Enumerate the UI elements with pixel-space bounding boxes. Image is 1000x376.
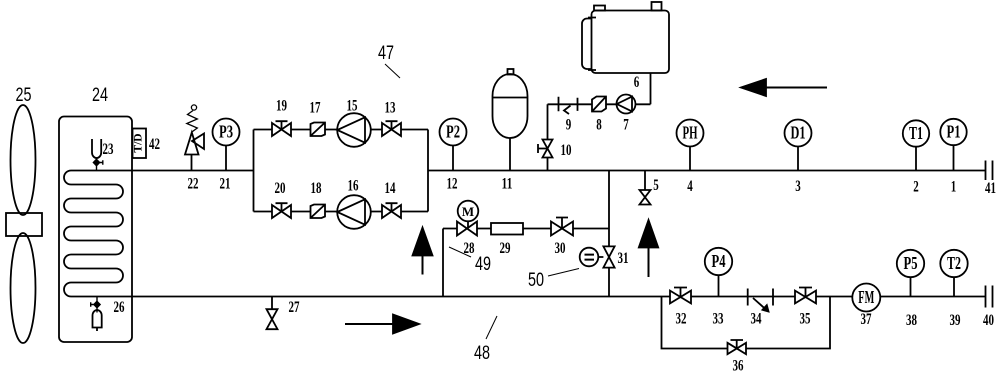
- svg-text:4: 4: [687, 178, 693, 195]
- svg-text:9: 9: [566, 117, 572, 134]
- heater 42 box: [133, 129, 147, 159]
- node loop right vertical: [427, 130, 429, 212]
- check valve 8: [592, 97, 606, 112]
- filter 29: [491, 223, 523, 235]
- valve 5: [640, 171, 651, 205]
- svg-text:1: 1: [951, 179, 957, 196]
- flow arrow left (top right): [766, 87, 827, 89]
- fan 25 blade bottom: [11, 233, 36, 343]
- flow switch 34: [748, 289, 773, 311]
- svg-text:38: 38: [906, 312, 917, 329]
- sensor 23 junction: [93, 158, 102, 171]
- wire bottom main: [132, 296, 986, 298]
- svg-text:P2: P2: [446, 122, 460, 142]
- svg-text:10: 10: [561, 142, 572, 159]
- svg-text:D1: D1: [791, 123, 806, 143]
- node drop line x609: [608, 171, 610, 297]
- svg-text:P5: P5: [904, 253, 918, 273]
- sensor 26 junction: [91, 297, 100, 313]
- svg-text:5: 5: [653, 177, 659, 194]
- svg-text:31: 31: [618, 250, 629, 267]
- motor valve 28: [457, 221, 477, 235]
- svg-text:3: 3: [795, 178, 801, 195]
- valve 27: [267, 297, 278, 330]
- svg-text:49: 49: [475, 254, 491, 275]
- wire top branch: [254, 129, 429, 131]
- valve 35: [795, 288, 816, 304]
- valve 13: [382, 121, 401, 136]
- svg-text:36: 36: [733, 358, 744, 375]
- svg-text:7: 7: [623, 117, 629, 134]
- gauge P2 (12): [452, 146, 454, 171]
- svg-text:6: 6: [634, 74, 640, 91]
- svg-text:50: 50: [528, 270, 544, 291]
- svg-text:30: 30: [555, 240, 566, 257]
- safety valve 22: [185, 133, 204, 171]
- svg-text:33: 33: [713, 311, 724, 328]
- label 47 with leader: [385, 64, 400, 78]
- svg-text:T1: T1: [909, 123, 923, 143]
- flow switch 9: [559, 97, 578, 114]
- pump 16: [337, 195, 371, 229]
- wire top main right: [428, 170, 986, 172]
- svg-text:25: 25: [16, 85, 32, 106]
- svg-text:8: 8: [596, 117, 602, 134]
- svg-text:26: 26: [114, 299, 125, 316]
- label 50 with leader: [548, 269, 579, 277]
- svg-text:18: 18: [311, 180, 322, 197]
- valve 19: [272, 121, 291, 136]
- valve 32: [670, 288, 691, 304]
- svg-text:40: 40: [983, 312, 994, 329]
- svg-text:PH: PH: [683, 123, 698, 143]
- svg-text:P4: P4: [712, 251, 726, 271]
- svg-text:41: 41: [985, 180, 996, 197]
- line end 40: [986, 286, 993, 308]
- svg-text:34: 34: [751, 311, 762, 328]
- svg-text:11: 11: [502, 176, 513, 193]
- wire mid branch: [443, 228, 609, 230]
- svg-text:17: 17: [310, 100, 321, 117]
- valve 36: [728, 340, 747, 354]
- svg-text:19: 19: [276, 98, 287, 115]
- gauge PH (4): [689, 147, 691, 171]
- svg-text:47: 47: [378, 43, 394, 64]
- svg-text:29: 29: [500, 240, 511, 257]
- valve 10: [538, 140, 553, 158]
- gauge P4 (33): [718, 275, 720, 296]
- svg-text:P1: P1: [947, 122, 961, 142]
- svg-text:M: M: [462, 204, 474, 219]
- heat exchanger 24 body: [59, 117, 132, 343]
- svg-text:37: 37: [861, 311, 872, 328]
- line end 41: [986, 161, 993, 181]
- gauge T2 (39): [953, 277, 955, 296]
- svg-text:24: 24: [92, 85, 108, 106]
- svg-text:14: 14: [385, 180, 396, 197]
- check valve 17: [311, 123, 326, 137]
- valve 30: [551, 218, 573, 236]
- pump 7: [617, 95, 636, 114]
- svg-text:FM: FM: [858, 287, 874, 307]
- svg-text:32: 32: [676, 311, 687, 328]
- wire top main left: [132, 170, 254, 172]
- flow meter FM (37): [852, 284, 880, 312]
- svg-text:20: 20: [275, 180, 286, 197]
- valve 31: [598, 246, 614, 267]
- svg-text:12: 12: [447, 176, 458, 193]
- wire riser to compressor: [548, 73, 651, 171]
- svg-text:T2: T2: [947, 253, 961, 273]
- node loop left vertical: [253, 130, 255, 212]
- coil serpentine: [64, 171, 132, 297]
- svg-text:35: 35: [800, 311, 811, 328]
- gauge P1 (1): [953, 145, 955, 170]
- flow arrow up left: [422, 256, 424, 275]
- flow arrow right (bottom): [345, 323, 394, 325]
- svg-text:48: 48: [474, 343, 490, 364]
- svg-text:42: 42: [149, 136, 160, 153]
- fan 25 blade top: [11, 105, 36, 215]
- svg-text:13: 13: [385, 100, 396, 117]
- gauge T1 (2): [915, 147, 917, 171]
- bypass loop: [662, 297, 831, 349]
- fan 25 hub: [6, 213, 42, 236]
- svg-text:2: 2: [913, 179, 919, 196]
- svg-text:23: 23: [103, 141, 114, 158]
- gauge P5 (38): [910, 277, 912, 296]
- expansion tank 11: [509, 138, 511, 171]
- svg-text:39: 39: [950, 312, 961, 329]
- label 48 with leader: [486, 316, 497, 339]
- compressor 6 body: [592, 11, 670, 74]
- gauge P3 (21): [225, 146, 227, 171]
- sensor 26 bulb: [93, 310, 102, 331]
- label 49 with leader: [449, 247, 471, 257]
- valve 20: [272, 203, 291, 218]
- valve 14: [382, 203, 401, 218]
- svg-text:15: 15: [347, 98, 358, 115]
- svg-text:P3: P3: [219, 122, 233, 142]
- flow arrow up right: [648, 248, 650, 278]
- branch 49 vertical: [442, 229, 444, 297]
- svg-text:T/D: T/D: [133, 133, 145, 152]
- wire bottom branch: [254, 211, 429, 213]
- svg-text:22: 22: [188, 176, 199, 193]
- gauge D1 (3): [797, 147, 799, 171]
- svg-text:21: 21: [220, 176, 231, 193]
- sensor 23 bulb: [92, 139, 101, 158]
- svg-text:16: 16: [348, 178, 359, 195]
- pump 15: [337, 113, 371, 147]
- check valve 18: [311, 205, 326, 219]
- svg-text:27: 27: [289, 299, 300, 316]
